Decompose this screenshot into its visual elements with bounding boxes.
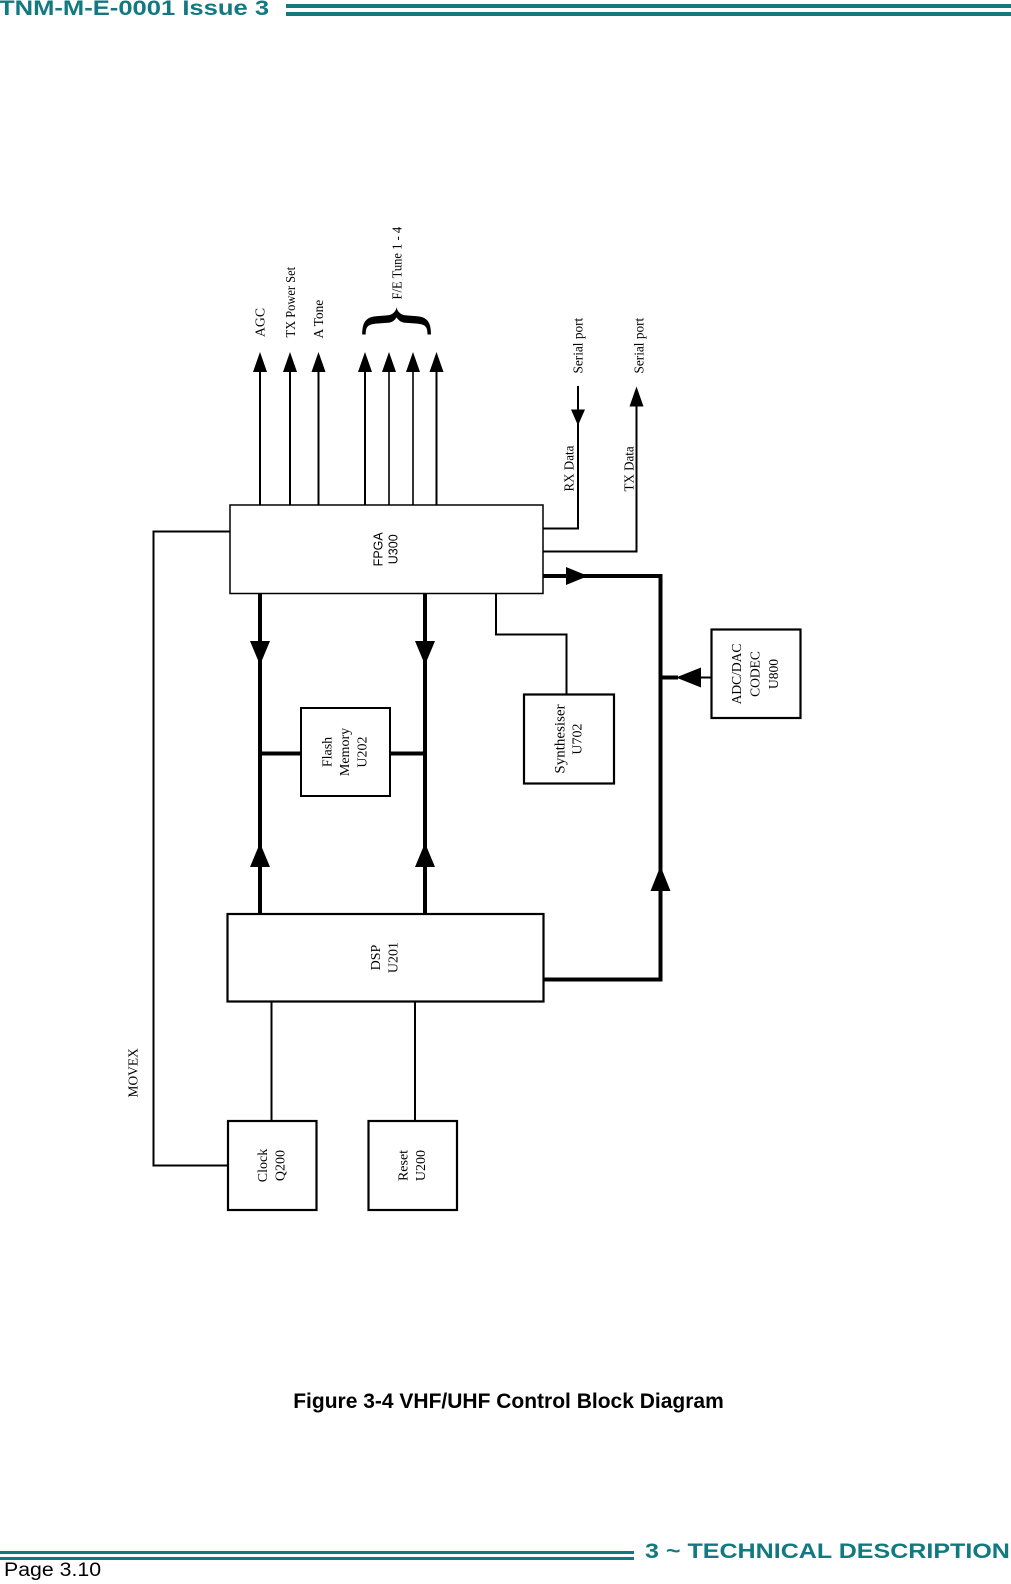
svg-text:Clock: Clock [256,1149,271,1182]
wire DSP to clock [271,1002,273,1122]
wire F/E Tune 4 [436,368,438,505]
svg-text:U202: U202 [356,736,371,767]
block Flash Memory U202 [301,708,390,796]
svg-text:U800: U800 [766,659,781,689]
label Serial port RX [570,318,585,374]
svg-text:Memory: Memory [338,728,353,776]
arrowhead bus 2 up [415,843,435,867]
label MOVEX [125,1048,140,1097]
footer section title [645,1541,1010,1562]
header double rule line 1 [286,4,1011,8]
svg-text:Flash: Flash [321,737,336,767]
wire F/E Tune 2 [388,368,390,505]
wire TX Data serial [543,404,637,552]
svg-text:Reset: Reset [397,1150,412,1181]
wire trunk FPGA to codec and DSP (thick) [543,576,661,980]
footer page number [4,1561,101,1580]
arrowhead F/E Tune 1 up [358,352,372,372]
block Reset U200 [369,1121,458,1210]
header double rule line 2 [286,12,1011,16]
arrowhead F/E Tune 4 up [430,352,444,372]
arrowhead trunk up [651,866,671,891]
svg-text:Serial port: Serial port [631,318,646,374]
svg-text:MOVEX: MOVEX [125,1048,140,1097]
svg-text:U702: U702 [571,723,586,754]
svg-text:Q200: Q200 [274,1150,289,1181]
block Clock Q200 [228,1121,317,1210]
wire MOVEX [154,532,231,1166]
wire TX Power Set [289,368,291,505]
arrowhead bus 2 down [415,641,435,665]
arrowhead F/E Tune 3 up [406,352,420,372]
block Synthesiser U702 [524,695,614,784]
svg-text:TX Power Set: TX Power Set [282,267,298,338]
svg-text:A Tone: A Tone [311,300,326,339]
wire bus 2 FPGA-DSP (thick) [423,594,427,914]
svg-text:AGC: AGC [252,308,267,337]
wire DSP to reset [414,1002,416,1122]
arrowhead RX Data down [571,410,585,426]
arrowhead AGC up [253,352,267,372]
label F/E Tune 1 - 4 [389,226,405,299]
svg-text:CODEC: CODEC [748,651,763,697]
block DSP U201 [228,914,544,1002]
label TX Power Set [282,267,298,338]
arrowhead TX Data up [630,387,644,407]
svg-text:U300: U300 [387,534,401,564]
label Serial port TX [631,318,646,374]
footer double rule line 1 [0,1551,634,1554]
wire FPGA to synthesiser [496,594,567,694]
wire codec stub [661,676,712,680]
figure caption [3,1391,1011,1412]
svg-text:Synthesiser: Synthesiser [553,704,569,773]
wire flash stub left [260,752,301,756]
header document number [0,0,269,19]
wire F/E Tune 3 [412,368,414,505]
svg-text:U201: U201 [387,942,402,973]
wire bus 1 FPGA-DSP (thick) [258,594,262,914]
wire flash stub right [390,752,425,756]
arrowhead codec left [676,668,701,688]
svg-text:FPGA: FPGA [372,532,386,567]
svg-text:TX Data: TX Data [621,446,637,491]
block ADC/DAC CODEC U800 [712,630,801,719]
arrowhead trunk right [566,567,588,585]
svg-text:U200: U200 [414,1150,429,1181]
block FPGA U300 [230,505,543,594]
label A Tone [311,300,326,339]
arrowhead TX Power Set up [283,352,297,372]
arrowhead A Tone up [312,352,326,372]
label TX Data [621,446,637,491]
label AGC [252,308,267,337]
svg-text:DSP: DSP [369,944,384,970]
arrowhead bus 1 down [250,641,270,665]
label RX Data [561,446,577,492]
svg-text:F/E Tune 1 - 4: F/E Tune 1 - 4 [389,226,405,299]
arrowhead bus 1 up [250,843,270,867]
brace F/E Tune group [362,307,431,334]
wire F/E Tune 1 [364,368,366,505]
arrowhead F/E Tune 2 up [382,352,396,372]
wire RX Data serial [543,386,578,529]
svg-text:RX Data: RX Data [561,446,577,492]
svg-text:ADC/DAC: ADC/DAC [729,644,744,705]
wire AGC (FPGA top to arrow) [259,368,261,505]
svg-text:Serial port: Serial port [570,318,585,374]
wire A Tone [318,368,320,505]
footer double rule line 2 [0,1557,634,1560]
